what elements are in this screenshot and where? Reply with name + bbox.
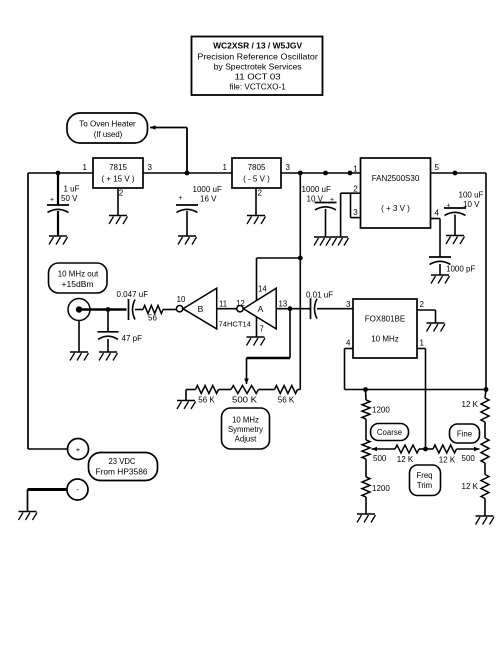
svg-text:56 K: 56 K xyxy=(198,396,215,405)
svg-text:+: + xyxy=(50,197,54,204)
svg-text:56 K: 56 K xyxy=(278,396,295,405)
svg-text:Adjust: Adjust xyxy=(235,435,258,444)
svg-text:12 K: 12 K xyxy=(397,455,414,464)
svg-text:13: 13 xyxy=(279,300,288,309)
svg-text:+: + xyxy=(76,445,81,454)
svg-text:Symmetry: Symmetry xyxy=(228,425,263,434)
svg-text:56: 56 xyxy=(148,314,157,323)
svg-text:14: 14 xyxy=(258,285,267,294)
svg-text:100 uF: 100 uF xyxy=(459,191,484,200)
svg-text:Coarse: Coarse xyxy=(377,428,402,437)
svg-text:( + 15 V ): ( + 15 V ) xyxy=(101,175,134,184)
svg-text:file: VCTCXO-1: file: VCTCXO-1 xyxy=(229,82,286,92)
svg-text:16 V: 16 V xyxy=(200,195,217,204)
svg-text:3: 3 xyxy=(148,163,153,172)
svg-text:+: + xyxy=(178,195,182,202)
svg-text:Trim: Trim xyxy=(417,481,432,490)
svg-text:5: 5 xyxy=(435,163,440,172)
svg-text:( - 5 V ): ( - 5 V ) xyxy=(243,175,270,184)
svg-text:WC2XSR / 13 / W5JGV: WC2XSR / 13 / W5JGV xyxy=(213,41,302,51)
svg-text:1: 1 xyxy=(420,339,425,348)
svg-text:23 VDC: 23 VDC xyxy=(109,457,136,466)
svg-text:+15dBm: +15dBm xyxy=(62,280,94,289)
svg-text:12 K: 12 K xyxy=(439,456,456,465)
svg-text:From HP3586: From HP3586 xyxy=(96,468,149,477)
svg-text:12 K: 12 K xyxy=(462,400,479,409)
svg-text:50 V: 50 V xyxy=(61,194,78,203)
svg-text:2: 2 xyxy=(420,300,425,309)
svg-text:by Spectrotek Services: by Spectrotek Services xyxy=(214,62,302,72)
svg-text:4: 4 xyxy=(435,209,440,218)
svg-text:3: 3 xyxy=(353,208,358,217)
svg-text:2: 2 xyxy=(258,189,263,198)
svg-text:7: 7 xyxy=(260,325,264,334)
svg-text:10: 10 xyxy=(177,295,186,304)
svg-text:1200: 1200 xyxy=(372,406,390,415)
svg-text:Precision Reference Oscillator: Precision Reference Oscillator xyxy=(197,51,318,61)
svg-text:1: 1 xyxy=(223,163,228,172)
svg-text:(If used): (If used) xyxy=(94,130,123,139)
svg-text:74HCT14: 74HCT14 xyxy=(219,320,252,329)
svg-text:Freq: Freq xyxy=(416,471,432,480)
svg-text:2: 2 xyxy=(353,185,358,194)
svg-text:4: 4 xyxy=(346,339,351,348)
svg-text:10 MHz out: 10 MHz out xyxy=(58,270,99,279)
svg-text:B: B xyxy=(198,304,204,314)
svg-text:To Oven Heater: To Oven Heater xyxy=(79,120,136,129)
svg-text:10 MHz: 10 MHz xyxy=(232,416,259,425)
svg-text:10 MHz: 10 MHz xyxy=(371,335,399,344)
svg-text:+: + xyxy=(330,197,334,204)
svg-text:A: A xyxy=(258,304,264,314)
svg-text:10 V: 10 V xyxy=(307,195,324,204)
svg-text:FAN2500S30: FAN2500S30 xyxy=(372,174,420,183)
svg-text:( + 3 V ): ( + 3 V ) xyxy=(381,204,410,213)
svg-text:0.01 uF: 0.01 uF xyxy=(306,291,333,300)
svg-text:3: 3 xyxy=(286,163,291,172)
svg-text:1000 uF: 1000 uF xyxy=(302,185,331,194)
svg-text:47 pF: 47 pF xyxy=(122,334,143,343)
svg-text:7815: 7815 xyxy=(109,163,127,172)
svg-text:1000 pF: 1000 pF xyxy=(446,265,475,274)
svg-text:1 uF: 1 uF xyxy=(64,185,80,194)
svg-text:11: 11 xyxy=(219,300,227,309)
svg-text:3: 3 xyxy=(346,300,351,309)
svg-text:+: + xyxy=(446,203,450,210)
svg-text:12: 12 xyxy=(236,299,245,308)
svg-text:FOX801BE: FOX801BE xyxy=(365,315,405,324)
svg-text:12 K: 12 K xyxy=(462,482,479,491)
svg-text:10 V: 10 V xyxy=(463,200,480,209)
svg-text:7805: 7805 xyxy=(248,163,266,172)
svg-text:1: 1 xyxy=(353,165,358,174)
svg-text:0.047 uF: 0.047 uF xyxy=(117,290,149,299)
svg-text:Fine: Fine xyxy=(457,430,472,439)
svg-text:500: 500 xyxy=(462,454,476,463)
svg-text:1: 1 xyxy=(83,163,88,172)
svg-text:1200: 1200 xyxy=(372,484,390,493)
svg-text:1000 uF: 1000 uF xyxy=(193,185,222,194)
svg-text:500 K: 500 K xyxy=(232,396,258,405)
svg-text:2: 2 xyxy=(119,189,124,198)
svg-text:11 OCT 03: 11 OCT 03 xyxy=(235,72,281,82)
svg-text:500: 500 xyxy=(373,454,387,463)
